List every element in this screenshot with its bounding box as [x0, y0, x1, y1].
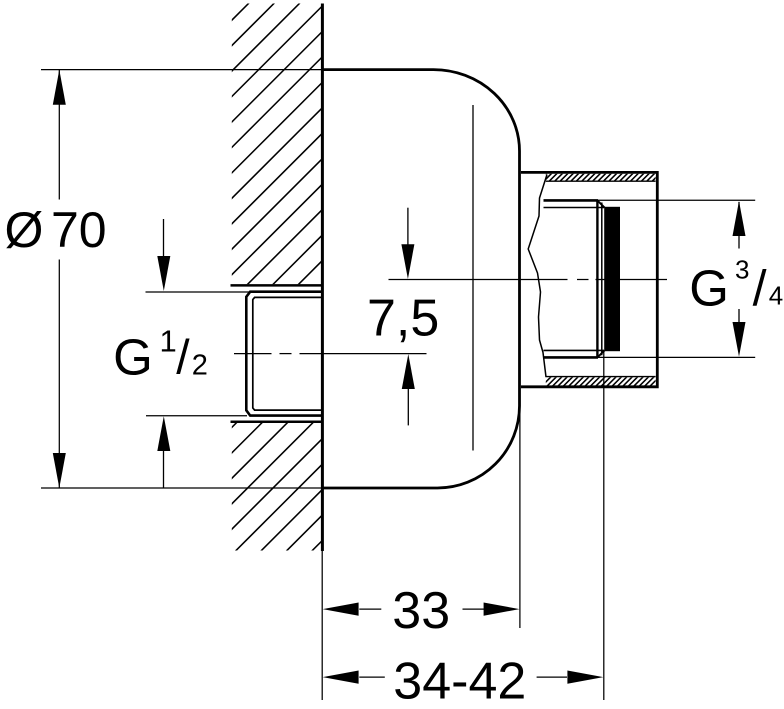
union nut outer profile — [521, 172, 657, 386]
male thread outer diameter lines — [544, 199, 599, 202]
dim G1/2 arrow down — [163, 219, 165, 257]
svg-text:4: 4 — [769, 280, 783, 310]
break (wavy) line — [528, 175, 547, 378]
dim G1/2 arrow up — [163, 451, 165, 488]
thread end chamfers — [597, 200, 604, 207]
right connector axis centerline — [389, 279, 568, 281]
svg-text:Ø: Ø — [5, 202, 44, 258]
dim O70 arrow up — [53, 70, 66, 105]
svg-text:2: 2 — [192, 350, 208, 382]
dim 7,5 arrow up — [407, 389, 409, 425]
svg-text:1: 1 — [160, 323, 177, 358]
dim O70 arrow down — [53, 453, 66, 488]
wall face line — [321, 4, 324, 552]
dim G1/2 top extension line — [146, 291, 250, 293]
body outline — [322, 70, 520, 488]
dim 34-42 extension line right — [603, 351, 605, 700]
dim G3/4 top extension line — [598, 199, 755, 201]
dim G3/4 arrow up — [738, 202, 740, 249]
svg-text:7,5: 7,5 — [367, 290, 439, 348]
svg-text:34-42: 34-42 — [393, 652, 526, 704]
G1/2 socket thread inner line — [253, 297, 322, 410]
svg-text:G: G — [689, 260, 729, 317]
dim 34-42 extension line left — [321, 551, 323, 700]
wall hole bottom edge — [231, 421, 323, 424]
svg-text:3: 3 — [735, 255, 749, 285]
dim G1/2 bottom extension line — [146, 415, 247, 417]
thread end face — [596, 200, 598, 358]
svg-text:70: 70 — [51, 202, 107, 258]
G1/2 socket centerline — [234, 353, 272, 355]
body silhouette line — [472, 105, 474, 451]
svg-text:G: G — [113, 328, 153, 385]
dim 33 extension line right — [519, 406, 521, 628]
G1/2 socket outer profile — [246, 292, 322, 416]
nut wall hatch strip bottom — [222, 0, 784, 700]
svg-text:33: 33 — [392, 582, 450, 640]
dim 33 dimension line + arrows — [323, 603, 359, 616]
male thread root lines — [544, 207, 605, 209]
dim O70 top extension line — [41, 69, 322, 71]
wall hole top edge — [231, 284, 323, 287]
dim O70 bottom extension line — [41, 487, 322, 489]
dim G3/4 arrow down — [738, 309, 740, 323]
svg-text:/: / — [753, 261, 767, 317]
dim O70 dimension line — [58, 70, 60, 200]
svg-text:/: / — [176, 332, 190, 385]
dim G3/4 bottom extension line — [598, 356, 755, 358]
gasket (seal) — [604, 207, 620, 351]
dim 7,5 arrow down — [407, 208, 409, 245]
dim 34-42 dimension line + arrows — [323, 671, 359, 684]
